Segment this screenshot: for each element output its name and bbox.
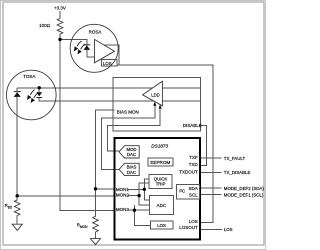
- wire ROSA PD anode to amp: [87, 50, 95, 57]
- svg-text:LOS: LOS: [224, 227, 233, 232]
- svg-text:MON: MON: [80, 225, 88, 229]
- svg-text:TRIP: TRIP: [156, 182, 166, 187]
- wire MON2 to ADC: [139, 196, 149, 206]
- wire BIAS DAC to LDD arrow 1: [102, 105, 155, 169]
- diode TOSA monitor PD: [14, 91, 21, 97]
- wire MON3 to ADC: [129, 209, 150, 211]
- wire TOSA top rail: [17, 87, 200, 89]
- wire laser anode stem: [38, 88, 40, 93]
- wire BIAS MON to MON1: [96, 110, 115, 189]
- node RBD junction: [16, 194, 19, 197]
- node MON2 internal: [137, 194, 140, 197]
- svg-text:MON3: MON3: [116, 207, 129, 212]
- svg-text:100Ω: 100Ω: [39, 23, 51, 28]
- LDD box: [113, 78, 201, 132]
- photodiode ROSA: [84, 44, 91, 50]
- wire MON1 pin: [96, 188, 115, 190]
- orthogonal wires (crisp): [17, 11, 222, 239]
- ground RBD: [12, 224, 22, 230]
- TOSA emission arrows: [28, 90, 39, 103]
- wire MON1 internal: [128, 188, 144, 190]
- wire node A vertical RSSI down to MON3: [60, 40, 115, 211]
- IC DS1873 box: [115, 138, 201, 240]
- resistor RBD: [14, 200, 20, 216]
- svg-text:+3.3V: +3.3V: [54, 6, 66, 11]
- wire SCL to MODE_DEF1: [200, 194, 221, 196]
- svg-text:BD: BD: [8, 205, 13, 209]
- wire MON3 to LOS block: [134, 210, 150, 225]
- op-amp ROSA post-amplifier: [95, 39, 115, 62]
- wire monitor PD anode down to RBD: [16, 97, 18, 196]
- svg-text:LOSOUT: LOSOUT: [179, 225, 198, 230]
- wire DISABLE to TXD: [199, 125, 207, 165]
- resistor RMON: [93, 216, 99, 232]
- ADC box: [149, 195, 173, 214]
- node MON1 internal: [143, 188, 146, 191]
- wire +3.3V stem: [59, 11, 61, 17]
- svg-text:TOSA: TOSA: [23, 74, 35, 79]
- svg-text:TXF: TXF: [189, 155, 198, 160]
- wire MON1 to ADC: [144, 189, 149, 200]
- LDD arrow 2 head: [159, 105, 162, 109]
- resistor 100ohm: [57, 17, 63, 39]
- wire SDA to MODE_DEF2: [200, 187, 221, 189]
- wire MON3 stub: [133, 205, 135, 210]
- ROSA light arrows: [74, 41, 85, 54]
- wire monitor PD cathode stem: [16, 88, 18, 91]
- node MON1 junction: [94, 187, 97, 190]
- LDD triangle: [143, 81, 163, 106]
- wire LOSOUT to LOS label: [200, 229, 222, 231]
- svg-text:EEPROM: EEPROM: [150, 160, 170, 165]
- ROSA circle: [70, 24, 118, 72]
- svg-text:DS1873: DS1873: [151, 143, 168, 148]
- resistor RBD label: [5, 203, 13, 209]
- wire RBD junction down to resistor: [16, 196, 18, 200]
- wire MON2 internal: [128, 195, 139, 197]
- svg-text:ROSA: ROSA: [89, 29, 102, 34]
- LOS box internal: [150, 221, 173, 229]
- svg-text:LOS: LOS: [189, 219, 198, 224]
- wire RMON resistor to ground: [95, 232, 97, 239]
- svg-text:SCL: SCL: [189, 192, 198, 197]
- wire ROSA LOS to IC LOS pin: [117, 65, 213, 223]
- wire TXDOUT to TX_DISABLE: [200, 172, 221, 174]
- QUICK TRIP box: [149, 174, 172, 188]
- svg-text:MODE_DEF1 (SCL): MODE_DEF1 (SCL): [224, 192, 264, 197]
- LED TOSA laser: [36, 92, 42, 98]
- svg-text:SDA: SDA: [189, 186, 198, 191]
- svg-text:TX_DISABLE: TX_DISABLE: [224, 170, 251, 175]
- svg-text:LOS: LOS: [103, 61, 112, 66]
- svg-text:MON2: MON2: [116, 193, 129, 198]
- wire MON2 to QUICK TRIP: [139, 183, 149, 196]
- wire MOD DAC to LDD arrow 2: [108, 108, 161, 151]
- wire TXF to TX_FAULT: [200, 157, 221, 159]
- svg-text:I²C: I²C: [179, 189, 185, 194]
- svg-text:MON1: MON1: [116, 187, 129, 192]
- svg-text:DAC: DAC: [127, 170, 136, 175]
- node RSSI junction: [58, 38, 61, 41]
- wire amp output stage: [105, 45, 119, 65]
- node laser anode: [38, 86, 41, 89]
- wire laser cathode rail to LDD: [39, 98, 200, 101]
- hexagon MOD DAC: [119, 146, 139, 158]
- LDD arrow 1 head: [153, 102, 156, 106]
- hexagon BIAS DAC: [119, 163, 139, 175]
- wire MON2 from RBD junction: [17, 195, 114, 197]
- svg-text:DISABLE: DISABLE: [183, 123, 202, 128]
- svg-text:ADC: ADC: [157, 203, 166, 208]
- I2C box: [177, 185, 200, 200]
- node MON3 internal: [133, 209, 136, 212]
- EEPROM box: [148, 158, 173, 166]
- svg-text:DAC: DAC: [127, 152, 136, 157]
- svg-text:BIAS MON: BIAS MON: [117, 109, 139, 114]
- svg-text:TXDOUT: TXDOUT: [179, 170, 198, 175]
- svg-text:LDD: LDD: [151, 92, 160, 97]
- svg-text:TXD: TXD: [189, 162, 199, 167]
- wire RBD resistor to ground: [16, 216, 18, 225]
- ground RMON: [90, 239, 100, 245]
- outer frame: [3, 2, 264, 245]
- resistor RMON label: [77, 223, 88, 229]
- wire MON1 to QUICK TRIP: [144, 179, 149, 189]
- svg-text:TX_FAULT: TX_FAULT: [224, 156, 246, 161]
- LOS box ROSA: [102, 60, 118, 67]
- wire junction to ROSA photodiode: [60, 40, 87, 45]
- svg-text:LOS: LOS: [157, 223, 166, 228]
- wire MON1 junction down to RMON: [95, 189, 97, 217]
- internal boxes (crisp): [148, 158, 200, 229]
- smooth shapes: [7, 17, 119, 244]
- TOSA circle: [7, 70, 57, 120]
- svg-text:MODE_DEF2 (SDA): MODE_DEF2 (SDA): [224, 186, 265, 191]
